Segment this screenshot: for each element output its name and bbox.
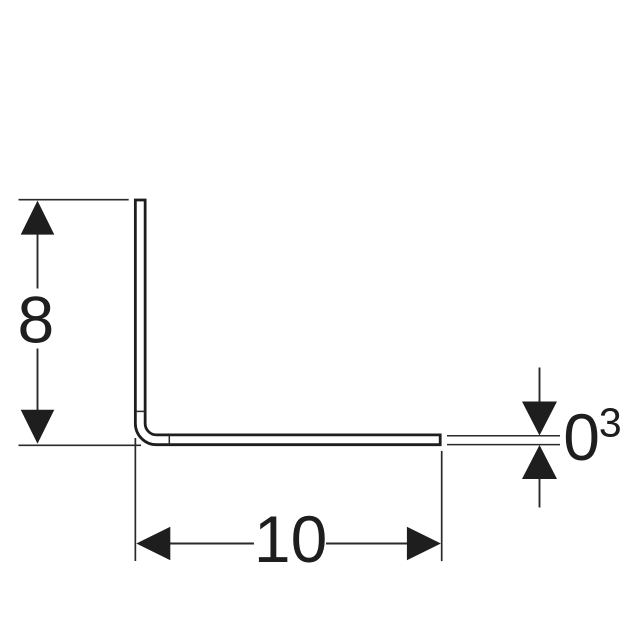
svg-text:0: 0	[563, 400, 600, 474]
arrow up (dim 8)	[21, 201, 55, 235]
extension line top (dim 8)	[19, 199, 129, 201]
extension line left (dim 10)	[134, 438, 136, 561]
extension line right (dim 10)	[441, 451, 443, 561]
arrow down (dim 8)	[21, 410, 55, 444]
arrow left (dim 10)	[136, 527, 170, 561]
arrow up (thickness)	[522, 445, 557, 479]
dimension line 8 upper segment	[37, 233, 39, 289]
arrow right (dim 10)	[407, 527, 441, 561]
arrow down (thickness)	[522, 402, 557, 436]
bend tangent mark on horizontal leg	[168, 435, 170, 445]
thickness extension line bottom	[447, 444, 560, 446]
angle profile body	[135, 200, 440, 445]
bend tangent mark on vertical leg	[135, 410, 145, 412]
svg-text:10: 10	[254, 502, 327, 576]
dimension line 8 lower segment	[37, 349, 39, 411]
extension line bottom (dim 8)	[19, 444, 142, 446]
dimension line 10 right segment	[326, 543, 408, 545]
thickness dimension line lower segment	[539, 478, 541, 508]
dimension line 10 left segment	[170, 543, 255, 545]
svg-text:8: 8	[17, 282, 54, 356]
svg-text:3: 3	[599, 399, 622, 445]
thickness dimension line upper segment	[539, 368, 541, 404]
thickness extension line top	[447, 435, 560, 437]
